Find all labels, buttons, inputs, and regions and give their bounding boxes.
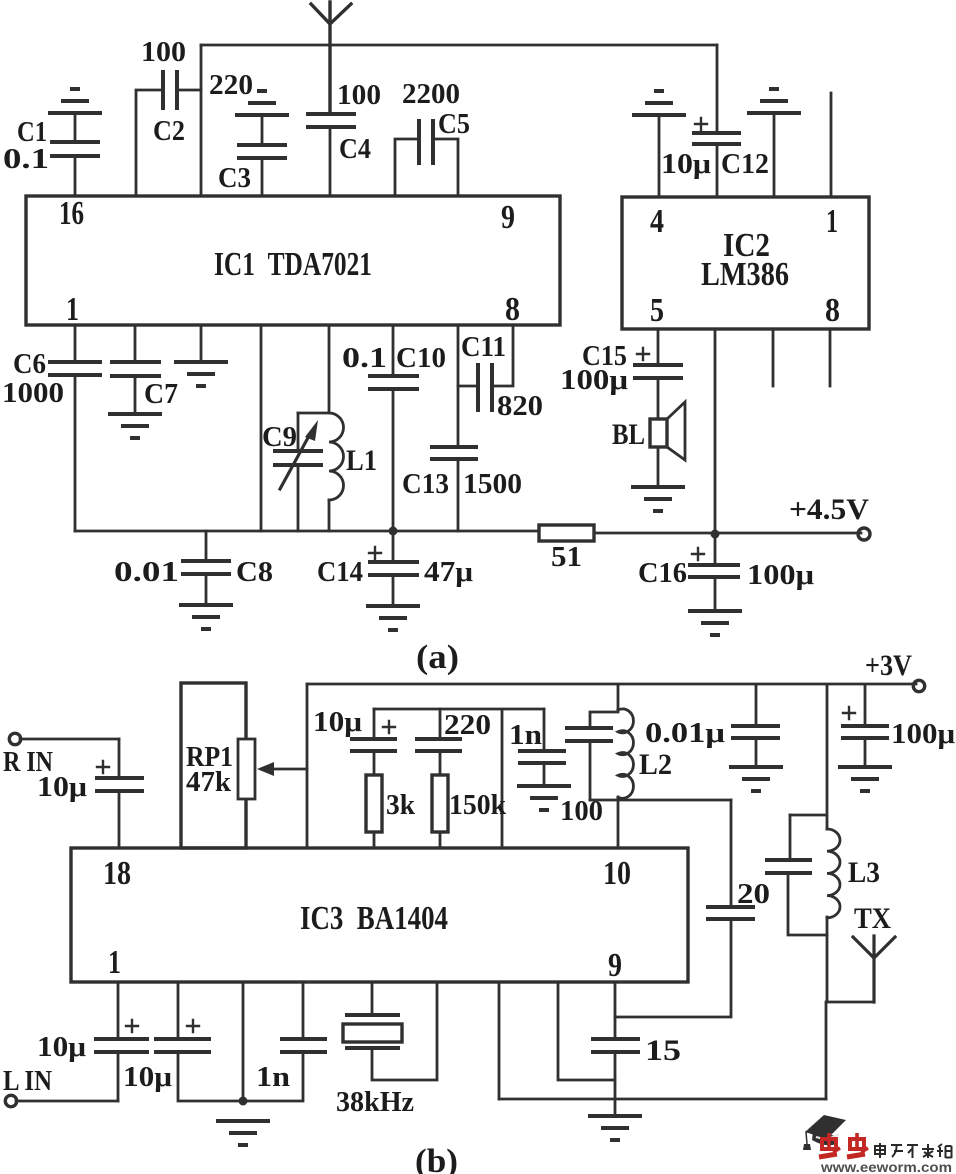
- svg-text:10μ: 10μ: [123, 1062, 172, 1093]
- watermark chongchong red: [819, 1133, 868, 1157]
- capacitor 15: [591, 982, 681, 1116]
- svg-text:10μ: 10μ: [37, 1032, 86, 1063]
- svg-text:220: 220: [444, 710, 491, 741]
- op-amp U2 : IC2 LM386 box: [622, 197, 869, 329]
- ground (below 100u): [838, 767, 892, 791]
- antenna RX: [311, 2, 351, 114]
- svg-text:100μ: 100μ: [560, 365, 628, 396]
- svg-text:+4.5V: +4.5V: [789, 493, 869, 526]
- ground (above C3): [235, 91, 289, 115]
- capacitor 10u (b): [313, 707, 397, 775]
- svg-text:100μ: 100μ: [747, 560, 814, 591]
- svg-text:C4: C4: [339, 134, 371, 165]
- svg-text:C6: C6: [13, 349, 46, 380]
- wire IC2 pin7 stub: [772, 329, 775, 386]
- svg-text:C2: C2: [153, 116, 185, 147]
- svg-text:C10: C10: [396, 343, 446, 374]
- capacitor C4: [306, 80, 381, 196]
- wire L3 to ground rail: [825, 1002, 828, 1099]
- inductor L3: [827, 829, 880, 1002]
- terminal +4.5V: [789, 493, 870, 540]
- svg-text:C16: C16: [638, 558, 687, 589]
- svg-text:(b): (b): [415, 1143, 458, 1174]
- svg-text:IC1 TDA7021: IC1 TDA7021: [214, 246, 372, 283]
- wire R IN: [20, 738, 119, 741]
- terminal L IN: [3, 1066, 118, 1107]
- wire ground rail (a): [75, 531, 861, 533]
- svg-text:47k: 47k: [186, 767, 231, 798]
- svg-text:100: 100: [141, 37, 186, 68]
- svg-text:1n: 1n: [256, 1062, 290, 1093]
- svg-text:(a): (a): [416, 639, 459, 676]
- wire IC1 pin4: [260, 325, 263, 531]
- svg-text:C13: C13: [402, 469, 449, 500]
- capacitor 1n (pin4): [243, 982, 327, 1101]
- svg-text:10μ: 10μ: [37, 772, 87, 803]
- capacitor (L3 tank): [765, 815, 827, 935]
- watermark logo cap: [803, 1115, 846, 1150]
- svg-text:100μ: 100μ: [891, 719, 955, 750]
- wire +3V rail: [307, 683, 916, 686]
- wire IC1 pin3: [200, 325, 203, 362]
- capacitor 220 (b): [415, 709, 491, 775]
- ground (below C8): [179, 605, 233, 629]
- svg-text:IC3 BA1404: IC3 BA1404: [300, 900, 448, 937]
- svg-text:1: 1: [66, 291, 79, 328]
- svg-text:L IN: L IN: [3, 1066, 52, 1097]
- svg-text:8: 8: [505, 291, 520, 328]
- svg-text:1500: 1500: [463, 469, 522, 500]
- svg-text:9: 9: [608, 947, 622, 984]
- svg-text:51: 51: [551, 542, 582, 573]
- svg-text:C11: C11: [461, 332, 506, 363]
- resistor RP1 47k potentiometer: [181, 683, 307, 848]
- svg-text:L3: L3: [848, 856, 880, 889]
- svg-text:C9: C9: [262, 422, 297, 453]
- svg-text:L2: L2: [639, 748, 672, 781]
- ground (below C7): [108, 414, 162, 438]
- svg-text:1n: 1n: [509, 720, 542, 751]
- svg-text:1: 1: [826, 203, 838, 240]
- svg-text:8: 8: [825, 292, 840, 329]
- capacitor C10: [342, 325, 446, 531]
- svg-text:C3: C3: [218, 163, 251, 194]
- svg-text:5: 5: [650, 292, 664, 329]
- svg-text:0.1: 0.1: [3, 144, 49, 175]
- svg-text:BL: BL: [612, 418, 645, 451]
- resistor 150k: [432, 775, 506, 848]
- op-amp U3 : IC3 BA1404 box: [71, 848, 688, 984]
- svg-text:C7: C7: [144, 379, 178, 410]
- svg-text:1000: 1000: [2, 378, 64, 409]
- svg-text:150k: 150k: [449, 790, 506, 821]
- svg-text:C8: C8: [236, 557, 273, 588]
- svg-text:www.eeworm.com: www.eeworm.com: [820, 1160, 952, 1174]
- wire IC2 pin8 stub: [829, 329, 832, 386]
- crystal 38kHz: [336, 982, 437, 1118]
- ground (IC1 pin3): [174, 362, 228, 386]
- node (C10 rail junction): [389, 527, 398, 536]
- svg-text:10μ: 10μ: [661, 149, 711, 180]
- capacitor C2: [136, 37, 201, 196]
- svg-text:2200: 2200: [402, 79, 460, 110]
- svg-text:18: 18: [103, 855, 131, 892]
- capacitor 0.01u: [645, 685, 780, 767]
- capacitor C12: [661, 45, 769, 197]
- node (ground junction b): [239, 1097, 248, 1106]
- speaker BL: [612, 402, 685, 487]
- svg-text:9: 9: [501, 199, 515, 236]
- svg-text:L1: L1: [346, 444, 377, 477]
- svg-text:3k: 3k: [386, 790, 415, 821]
- capacitor C15: [560, 329, 683, 419]
- ground (IC2 pin4 top): [632, 91, 686, 115]
- node (rail junction at C16): [711, 530, 720, 539]
- ground (below BL): [631, 487, 685, 511]
- svg-text:0.01: 0.01: [114, 557, 179, 588]
- capacitor C16: [638, 534, 814, 611]
- wire IC2 pin1 stub: [830, 93, 833, 197]
- terminal +3V: [865, 649, 925, 692]
- svg-text:4: 4: [650, 203, 664, 240]
- svg-text:+3V: +3V: [865, 649, 912, 682]
- wire IC3 pin3 ground: [242, 982, 245, 1101]
- svg-text:0.01μ: 0.01μ: [645, 718, 725, 749]
- svg-text:1: 1: [108, 944, 121, 981]
- capacitor C11: [458, 325, 543, 422]
- svg-text:47μ: 47μ: [424, 557, 473, 588]
- capacitor 20: [615, 800, 770, 1017]
- resistor 51: [539, 525, 594, 573]
- wire top rail: [201, 44, 717, 47]
- wire L3 top: [790, 686, 827, 829]
- capacitor C8: [114, 531, 273, 605]
- wire L2 bottom to cap 20: [590, 799, 731, 802]
- svg-text:16: 16: [59, 195, 84, 232]
- ground (below C14): [366, 606, 420, 630]
- wire ground rail (b): [499, 1098, 826, 1101]
- capacitor 100u (b): [841, 686, 955, 767]
- wire IC3 pin7 ground: [498, 982, 501, 1099]
- ground (IC3 pin3): [216, 1121, 270, 1145]
- svg-text:LM386: LM386: [701, 256, 789, 293]
- svg-text:C14: C14: [317, 557, 363, 588]
- svg-text:C5: C5: [438, 109, 470, 140]
- capacitor 10u (R IN): [37, 739, 144, 848]
- svg-text:820: 820: [497, 391, 543, 422]
- capacitor 100 (L2 tank): [560, 686, 618, 827]
- svg-text:C12: C12: [721, 149, 769, 180]
- wire IC2 pin6 to rail: [714, 329, 717, 534]
- capacitor 1n (top): [509, 709, 566, 786]
- ground (above C1): [48, 89, 102, 113]
- svg-text:TX: TX: [854, 902, 891, 935]
- svg-text:220: 220: [209, 70, 253, 101]
- capacitor C6: [2, 325, 102, 531]
- wire IC2 pin4: [658, 115, 661, 197]
- capacitor 10u (pin2): [123, 982, 243, 1101]
- ground (below 15): [588, 1116, 642, 1140]
- wire IC1 pin5 to tank: [298, 325, 329, 413]
- svg-text:10μ: 10μ: [313, 707, 362, 738]
- wire IC3 pin8: [558, 982, 615, 1080]
- capacitor C1: [3, 113, 100, 196]
- capacitor C5: [395, 79, 470, 196]
- wire wiper to IC3: [306, 684, 309, 848]
- inductor L1: [329, 413, 377, 531]
- wire (ground to IC2 top): [773, 113, 776, 197]
- wire sub rail (caps to IC3): [374, 709, 544, 848]
- ground (IC2 top right): [747, 89, 801, 113]
- svg-text:10: 10: [603, 855, 631, 892]
- ground (below C16): [688, 611, 742, 635]
- watermark chinese site name: [875, 1143, 952, 1158]
- terminal R IN: [3, 733, 53, 778]
- capacitor 10u (L IN): [37, 982, 149, 1101]
- inductor L2: [618, 709, 672, 848]
- antenna TX: [827, 902, 895, 1002]
- op-amp U1 : IC1 TDA7021 box: [26, 195, 560, 328]
- capacitor C13: [402, 325, 522, 531]
- capacitor C14: [317, 531, 473, 606]
- capacitor C3: [218, 115, 287, 196]
- ground (below 1n): [517, 786, 571, 810]
- svg-text:0.1: 0.1: [342, 343, 387, 374]
- wire 220 node vertical: [200, 45, 203, 196]
- ground (below 0.01u): [729, 767, 783, 791]
- svg-text:100: 100: [337, 80, 381, 111]
- svg-text:38kHz: 38kHz: [336, 1087, 414, 1118]
- svg-text:20: 20: [737, 879, 770, 910]
- resistor 3k: [366, 775, 415, 848]
- capacitor C9 variable: [262, 413, 323, 531]
- svg-text:15: 15: [645, 1034, 681, 1067]
- capacitor C7: [110, 325, 178, 414]
